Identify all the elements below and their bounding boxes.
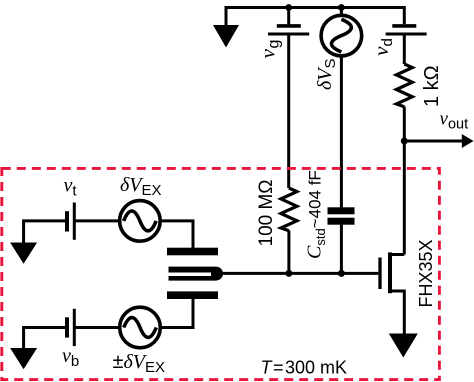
node junction dot top rail at delta-V_S	[338, 4, 345, 11]
resistor R1 100 Mohm	[281, 188, 297, 231]
transistor U1 gate bar	[378, 258, 381, 290]
transistor U1 source lead	[389, 291, 405, 334]
comb capacitor middle movable electrode	[169, 267, 224, 281]
wire v_g branch upper	[287, 8, 290, 25]
svg-text:vt: vt	[64, 175, 78, 200]
wire delta-V_S branch lower	[340, 56, 343, 209]
wire vt to excitation source	[76, 219, 121, 222]
svg-text:δVS: δVS	[314, 58, 339, 90]
node junction dot middle rail at 100M	[285, 270, 292, 277]
battery v_t short plate	[65, 211, 69, 231]
wire vb to excitation source	[76, 326, 121, 329]
svg-text:δVEX: δVEX	[120, 174, 162, 199]
capacitor C_std top plate	[328, 207, 355, 214]
wire 1k-to-drain vertical	[403, 107, 406, 255]
battery v_g long plate	[268, 33, 309, 36]
dilution fridge boundary red dashed box	[2, 168, 440, 379]
sine wave inside plus-minus-delta-V_EX	[124, 318, 157, 338]
AC source plus-minus-delta-V_EX circle	[120, 307, 161, 348]
ground left top	[10, 243, 37, 264]
svg-text:FHX35X: FHX35X	[416, 239, 436, 307]
transistor U1 drain lead	[389, 253, 405, 256]
node junction dot middle rail at Cstd	[338, 270, 345, 277]
comb capacitor top plate	[167, 248, 218, 256]
sine wave inside delta-V_EX	[124, 211, 157, 231]
node junction dot v_out	[401, 138, 408, 145]
wire bottom branch: ground to battery vb	[24, 328, 66, 349]
wire source to top comb plate	[159, 221, 193, 248]
wire v_g branch lower	[287, 35, 290, 188]
svg-text:vg: vg	[256, 40, 283, 59]
comb capacitor bottom plate	[167, 291, 218, 299]
battery v_t long plate	[73, 203, 76, 240]
svg-text:T = 300 mK: T = 300 mK	[261, 358, 348, 378]
arrowhead v_out	[462, 134, 474, 148]
resistor R2 1 kohm	[396, 64, 412, 107]
svg-text:±δVEX: ±δVEX	[113, 351, 166, 376]
wire top rail	[226, 8, 404, 26]
capacitor C_std bottom plate	[328, 218, 355, 225]
svg-text:vd: vd	[369, 38, 396, 56]
wire Cstd-to-node	[340, 224, 343, 273]
ground transistor source	[389, 334, 418, 358]
svg-text:vb: vb	[62, 345, 79, 370]
wire v_d branch	[403, 35, 406, 64]
battery v_b long plate	[73, 309, 76, 346]
transistor U1 channel bar	[388, 252, 392, 293]
slot in middle electrode	[166, 273, 211, 277]
battery v_g short plate	[277, 24, 301, 28]
wire v_out lead	[404, 140, 464, 143]
battery v_d long plate	[386, 33, 427, 36]
svg-text:1 kΩ: 1 kΩ	[421, 65, 443, 107]
battery v_b short plate	[65, 317, 69, 337]
wire delta-V_S branch upper	[340, 8, 343, 17]
svg-text:vout: vout	[440, 109, 469, 133]
ground top (gate rail)	[213, 25, 239, 48]
AC source delta-V_EX circle	[120, 201, 161, 242]
wire middle node rail (gate lead)	[221, 272, 378, 275]
sine wave inside delta-V_S	[332, 19, 352, 52]
AC source delta-V_S circle	[321, 15, 362, 56]
ground left bottom	[10, 348, 37, 369]
wire 100M-to-node	[287, 231, 290, 274]
svg-text:Cstd~404 fF: Cstd~404 fF	[304, 170, 329, 259]
battery v_d short plate	[392, 24, 416, 28]
wire top branch: ground to battery vt	[24, 221, 66, 243]
svg-text:100 MΩ: 100 MΩ	[256, 179, 277, 246]
node junction dot top rail at v_g	[285, 4, 292, 11]
wire source to bottom comb plate	[160, 299, 194, 328]
